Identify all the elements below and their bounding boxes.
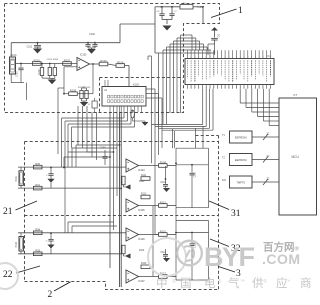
svg-text:22: 22: [3, 270, 13, 280]
svg-text:3: 3: [263, 56, 264, 58]
svg-text:3: 3: [194, 87, 195, 89]
svg-text:2: 2: [259, 56, 260, 58]
svg-text:R114: R114: [139, 250, 145, 252]
svg-text:1: 1: [221, 56, 222, 58]
svg-text:8: 8: [213, 56, 214, 58]
svg-text:31: 31: [231, 209, 241, 219]
svg-text:®™®™®™: ®™®™®™: [172, 278, 309, 285]
svg-text:BYF: BYF: [204, 242, 255, 272]
svg-text:5: 5: [270, 87, 271, 89]
svg-text:R112: R112: [160, 200, 167, 204]
svg-text:5: 5: [236, 87, 237, 89]
svg-text:7: 7: [210, 56, 211, 58]
svg-text:R115: R115: [160, 229, 167, 233]
svg-text:4: 4: [198, 56, 199, 58]
svg-text:4: 4: [266, 87, 267, 89]
svg-text:R108: R108: [160, 160, 167, 164]
svg-text:5: 5: [202, 87, 203, 89]
svg-text:P102: P102: [15, 241, 18, 247]
svg-text:3: 3: [194, 56, 195, 58]
svg-text:8: 8: [213, 87, 214, 89]
svg-text:TMP75: TMP75: [236, 181, 245, 185]
svg-text:21: 21: [3, 207, 13, 217]
svg-text:6: 6: [240, 56, 241, 58]
svg-text:3: 3: [228, 56, 229, 58]
svg-text:1: 1: [238, 6, 243, 16]
svg-text:C102: C102: [89, 33, 95, 36]
svg-text:MCU: MCU: [292, 155, 300, 159]
svg-text:R102: R102: [38, 69, 41, 75]
svg-text:R34: R34: [35, 228, 40, 232]
svg-text:R103: R103: [100, 59, 107, 63]
svg-text:IC105: IC105: [138, 209, 145, 212]
svg-text:R106: R106: [117, 60, 124, 64]
svg-text:2C: 2C: [267, 156, 270, 158]
svg-text:7: 7: [210, 87, 211, 89]
svg-text:6: 6: [206, 56, 207, 58]
svg-text:4: 4: [198, 87, 199, 89]
svg-text:7: 7: [244, 56, 245, 58]
svg-text:R35: R35: [35, 249, 40, 253]
svg-text:6: 6: [240, 87, 241, 89]
svg-text:.COM: .COM: [262, 251, 301, 267]
svg-text:K7: K7: [294, 93, 298, 97]
svg-text:3: 3: [228, 87, 229, 89]
svg-text:C116: C116: [195, 171, 197, 177]
svg-text:9: 9: [217, 87, 218, 89]
svg-text:9: 9: [251, 87, 252, 89]
svg-text:2: 2: [191, 56, 192, 58]
svg-text:1: 1: [187, 87, 188, 89]
svg-text:7: 7: [244, 87, 245, 89]
svg-text:IC107: IC107: [138, 280, 145, 283]
svg-text:C103: C103: [47, 59, 53, 61]
svg-text:2C: 2C: [267, 179, 270, 181]
svg-text:2: 2: [48, 290, 53, 300]
svg-text:9: 9: [217, 56, 218, 58]
svg-text:R101: R101: [34, 58, 41, 62]
svg-text:IC103: IC103: [138, 169, 145, 172]
svg-text:2: 2: [225, 87, 226, 89]
svg-text:R31: R31: [35, 183, 40, 187]
svg-text:EEPROM: EEPROM: [235, 158, 247, 162]
svg-text:C109: C109: [100, 148, 106, 150]
svg-text:R30: R30: [35, 162, 40, 166]
svg-text:4: 4: [232, 56, 233, 58]
svg-text:1: 1: [255, 56, 256, 58]
svg-text:9: 9: [251, 56, 252, 58]
svg-text:5: 5: [202, 56, 203, 58]
svg-text:1: 1: [221, 87, 222, 89]
svg-text:1: 1: [255, 87, 256, 89]
svg-text:IC106: IC106: [138, 238, 145, 241]
svg-text:2C: 2C: [267, 134, 270, 136]
svg-text:2: 2: [225, 56, 226, 58]
svg-text:IC8: IC8: [222, 179, 226, 182]
svg-text:K102: K102: [133, 84, 139, 87]
svg-text:R105: R105: [53, 59, 59, 61]
svg-text:3: 3: [263, 87, 264, 89]
svg-text:R107: R107: [64, 58, 71, 62]
svg-text:P101: P101: [15, 176, 18, 182]
svg-text:IC100: IC100: [80, 54, 87, 57]
svg-text:5: 5: [236, 56, 237, 58]
svg-text:R110: R110: [139, 181, 145, 183]
svg-text:2: 2: [259, 87, 260, 89]
svg-text:1: 1: [187, 56, 188, 58]
svg-text:R109: R109: [70, 89, 77, 93]
svg-text:C101: C101: [27, 46, 33, 49]
svg-text:6: 6: [206, 87, 207, 89]
svg-text:C100: C100: [17, 71, 19, 77]
svg-text:8: 8: [247, 56, 248, 58]
svg-text:4: 4: [266, 56, 267, 58]
svg-text:4: 4: [232, 87, 233, 89]
svg-text:8: 8: [247, 87, 248, 89]
svg-text:2: 2: [191, 87, 192, 89]
svg-text:5: 5: [270, 56, 271, 58]
svg-text:EEPROM: EEPROM: [235, 136, 247, 140]
